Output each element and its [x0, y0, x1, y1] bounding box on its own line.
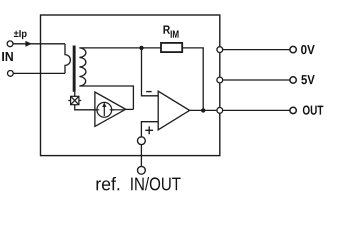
- wire amplifier output to coil: [126, 108, 134, 110]
- wire 5V: [223, 79, 290, 81]
- terminal IN bottom: [7, 71, 13, 77]
- current direction arrow: [25, 41, 32, 47]
- hall element stub from core: [74, 92, 76, 97]
- current source circle: [97, 102, 112, 117]
- label 5V: [301, 75, 314, 84]
- terminal ref inner: [138, 137, 146, 145]
- wire coil bottom: [79, 86, 133, 109]
- wire feedback to inverting input: [142, 48, 159, 96]
- current source arrow: [103, 105, 105, 117]
- wire ref through block edge: [140, 145, 142, 167]
- hall element (crossed square): [68, 96, 81, 104]
- label R_IM: [163, 26, 170, 34]
- wire 0V: [223, 49, 290, 51]
- label IN: [2, 52, 13, 61]
- label ±Ip: [14, 30, 27, 39]
- wire ref to non-inverting input: [141, 122, 158, 137]
- label ref. IN/OUT: [96, 177, 119, 190]
- terminal 0V: [290, 46, 296, 52]
- wire op-amp output: [190, 109, 217, 111]
- pin 5V on block edge: [217, 77, 223, 83]
- pin OUT on block edge: [217, 108, 223, 114]
- minus input label: [146, 91, 151, 93]
- wire primary bottom: [13, 72, 65, 74]
- pin 0V on block edge: [217, 47, 223, 53]
- resistor R_IM: [161, 43, 182, 52]
- label 0V: [301, 45, 315, 54]
- wire primary top: [13, 43, 65, 45]
- terminal ref outer: [138, 166, 146, 174]
- secondary coil: [79, 48, 85, 86]
- label OUT: [303, 106, 323, 115]
- wire R_IM to output node: [182, 48, 203, 111]
- wire OUT: [223, 109, 290, 111]
- plus input label: [145, 126, 153, 134]
- output node dot: [201, 108, 205, 112]
- terminal IN top: [7, 41, 13, 47]
- primary winding (conductor with bump): [65, 44, 70, 74]
- transducer block outline: [41, 15, 220, 156]
- hall amplifier A1 triangle: [95, 92, 126, 126]
- magnetic core: [73, 46, 76, 92]
- current source ticks: [94, 109, 114, 111]
- wire hall to amplifier: [75, 105, 95, 110]
- op-amp U1 triangle: [158, 91, 189, 130]
- terminal OUT: [290, 107, 296, 113]
- wire coil top to R_IM node: [79, 47, 161, 49]
- node junction dot: [139, 46, 143, 50]
- terminal 5V: [290, 77, 296, 83]
- internal wire through amplifier: [95, 109, 125, 111]
